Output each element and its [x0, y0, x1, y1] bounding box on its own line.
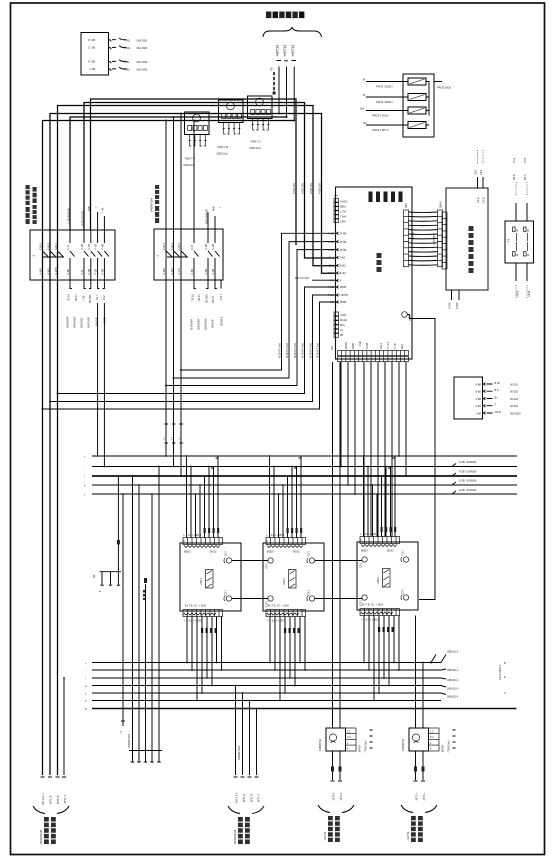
svg-text:M: M	[527, 253, 529, 257]
aux board U2	[446, 188, 488, 290]
feeder wire L1	[278, 67, 280, 114]
svg-text:F-2B: F-2B	[80, 244, 84, 250]
svg-text:−WT13 1.1: −WT13 1.1	[41, 793, 45, 806]
svg-text:3PPB: 3PPB	[340, 285, 347, 289]
svg-text:4B: 4B	[92, 575, 96, 578]
svg-text:C8-1: C8-1	[479, 169, 483, 175]
svg-text:7 2B: 7 2B	[81, 295, 85, 301]
feed wires	[236, 686, 257, 776]
svg-text:PRO3 I 000Ω I: PRO3 I 000Ω I	[376, 85, 393, 89]
module wire markers M1	[204, 528, 220, 533]
bus line 5	[70, 117, 287, 230]
drop wire b	[174, 242, 336, 378]
svg-text:I− 7·Δ B·I + 2B·B: I− 7·Δ B·I + 2B·B	[361, 619, 380, 622]
svg-text:≡WT13: ≡WT13	[291, 45, 295, 57]
ribbon right connector col	[438, 201, 443, 267]
drop wire f	[43, 302, 336, 409]
svg-text:–1: –1	[32, 254, 36, 258]
svg-text:00B.0Ω.4: 00B.0Ω.4	[447, 678, 458, 682]
svg-text:7-1B 0000AB: 7-1B 0000AB	[66, 208, 70, 224]
svg-text:B1: B1	[495, 395, 499, 399]
svg-text:I00AB.4: I00AB.4	[220, 316, 224, 326]
lower bus line 3	[92, 677, 441, 679]
svg-text:Z-W0: Z-W0	[455, 302, 459, 309]
svg-text:0000.2mL: 0000.2mL	[250, 146, 262, 150]
svg-text:M: M	[516, 229, 518, 233]
mid bus line 5	[92, 493, 517, 495]
svg-text:WT1 B: WT1 B	[250, 794, 254, 802]
pin row 7 net label	[312, 279, 336, 281]
KM2 switch links	[166, 251, 188, 257]
svg-text:1.7M: 1.7M	[340, 210, 346, 214]
svg-text:WT1 4: WT1 4	[63, 795, 67, 803]
feeder wire L2	[286, 67, 288, 118]
svg-text:IZA: IZA	[334, 194, 338, 198]
svg-text:≡WT13: ≡WT13	[283, 45, 287, 57]
psu A bottom text	[328, 816, 340, 842]
svg-text:M4-I: M4-I	[328, 271, 333, 275]
chain wire bottom M1-M2	[232, 598, 269, 600]
svg-text:0000.2mL: 0000.2mL	[217, 152, 229, 156]
KM1 left title	[26, 185, 37, 224]
KM2 aux col feed wire	[193, 121, 195, 230]
svg-text:F-2I: F-2I	[80, 270, 84, 275]
resistor bank box	[403, 74, 434, 137]
svg-text:B-4Ω: B-4Ω	[340, 264, 346, 268]
svg-text:F-W1: F-W1	[47, 268, 51, 275]
board drop wires to bus / module3	[341, 362, 406, 537]
KM1 upper stubs	[98, 212, 105, 230]
KM2 upper stubs	[208, 212, 215, 229]
svg-text:1.2: 1.2	[347, 730, 351, 734]
svg-text:F2-E: F2-E	[482, 197, 486, 203]
svg-text:上7: 上7	[178, 436, 182, 441]
svg-text:M4-7: M4-7	[328, 256, 334, 260]
board bottom-left connector J2	[330, 312, 347, 350]
svg-text:00 002: 00 002	[510, 404, 518, 408]
svg-text:I-3PPB: I-3PPB	[340, 293, 348, 297]
svg-text:C-2B: C-2B	[88, 60, 95, 64]
svg-text:F-1B: F-1B	[87, 244, 91, 250]
svg-text:AH-B1: AH-B1	[340, 200, 348, 204]
svg-text:F-4B: F-4B	[211, 269, 215, 275]
bottom text block	[44, 817, 56, 844]
svg-text:M: M	[363, 78, 365, 82]
svg-text:3B4: 3B4	[404, 203, 408, 208]
svg-text:7B 02: 7B 02	[66, 294, 70, 301]
contactor box KM1	[30, 230, 115, 280]
svg-text:00B.0Ω.4: 00B.0Ω.4	[447, 668, 458, 672]
svg-text:F-1B: F-1B	[94, 269, 98, 275]
module wire markers M3 bottom	[378, 627, 394, 632]
svg-text:PRO3 0 0PT 0: PRO3 0 0PT 0	[372, 128, 389, 132]
mid bus line 2	[92, 466, 517, 468]
module M2	[263, 538, 324, 617]
bus line 1	[91, 99, 297, 245]
svg-text:4-M3 10V: 4-M3 10V	[309, 182, 313, 194]
module wire markers M1 bottom	[201, 628, 217, 633]
svg-text:F-WTI: F-WTI	[54, 267, 58, 274]
dot on bus1 for chain	[430, 662, 432, 664]
aux board name	[469, 226, 474, 273]
ribbon edge labels	[411, 232, 437, 245]
svg-text:7-1B: 7-1B	[328, 240, 334, 244]
comb2 feed wires	[133, 467, 160, 751]
svg-text:M: M	[516, 253, 518, 257]
mid bus line 1	[92, 455, 517, 457]
relay contact row 1	[88, 38, 148, 42]
board name label	[377, 253, 382, 272]
KM2 bottom exits	[190, 280, 223, 303]
svg-text:6-B6: 6-B6	[476, 382, 482, 386]
cable fork	[33, 806, 69, 814]
svg-text:00 002: 00 002	[510, 397, 518, 401]
svg-text:06A.0301: 06A.0301	[137, 38, 149, 42]
svg-text:F-B2: F-B2	[124, 68, 130, 72]
svg-text:30STB40: 30STB40	[432, 234, 436, 245]
M3 top wire dots	[363, 455, 396, 486]
M2 bottom wires	[270, 617, 305, 701]
svg-text:I− 7·Δ B·I + 2B·B: I− 7·Δ B·I + 2B·B	[266, 534, 285, 537]
KM2 left title	[155, 185, 159, 223]
wire end ticks	[234, 776, 259, 778]
feeder wire L3	[293, 67, 295, 121]
dashed pe line	[269, 67, 275, 94]
bus line 3	[58, 106, 336, 776]
title text block	[266, 12, 304, 19]
psu A feed wires	[332, 362, 334, 728]
drop wire a	[181, 233, 336, 370]
svg-text:B-4Ω: B-4Ω	[340, 271, 346, 275]
svg-text:7-M4: 7-M4	[340, 215, 346, 219]
svg-text:6-B2: 6-B2	[476, 397, 482, 401]
pin box U3	[454, 377, 483, 419]
module wire markers M3	[381, 527, 397, 532]
board top-left connector J1	[334, 194, 348, 224]
svg-text:−BT1 1: −BT1 1	[339, 792, 343, 801]
svg-text:M 30 KY 2ml: M 30 KY 2ml	[285, 343, 289, 358]
svg-text:A: A	[340, 279, 342, 283]
svg-text:3.4: 3.4	[430, 735, 434, 739]
svg-text:M: M	[527, 229, 529, 233]
svg-text:−BT4 1: −BT4 1	[332, 792, 336, 801]
box T4	[505, 221, 534, 263]
svg-text:0-12: 0-12	[523, 157, 527, 163]
svg-text:0M30KY2l: 0M30KY2l	[318, 739, 322, 751]
bus line 6	[43, 121, 295, 776]
ribbon cable wires	[409, 212, 438, 265]
svg-text:E-2B 100WΩ4: E-2B 100WΩ4	[459, 460, 477, 464]
svg-text:I-4B: I-4B	[89, 67, 95, 71]
lower bus line 4	[92, 685, 441, 687]
svg-text:F2-E: F2-E	[476, 197, 480, 203]
M1 top wires	[187, 456, 219, 538]
svg-text:0M30KY2l: 0M30KY2l	[401, 739, 405, 751]
svg-text:F-2B: F-2B	[211, 244, 215, 250]
svg-text:0M30KY2ml: 0M30KY2ml	[150, 197, 154, 212]
svg-text:M 30 KY 2ml: M 30 KY 2ml	[309, 343, 313, 358]
svg-text:FL2: FL2	[102, 295, 106, 300]
lower bus line 7	[92, 708, 517, 710]
svg-text:06A.0301: 06A.0301	[137, 60, 149, 64]
svg-text:−T009.2ml: −T009.2ml	[364, 740, 368, 753]
svg-text:0-12: 0-12	[512, 157, 516, 163]
board right connector col (ribbon left)	[404, 203, 409, 267]
resistor R4	[408, 122, 426, 129]
svg-text:F-W0: F-W0	[39, 268, 43, 275]
svg-text:M0+: M0+	[340, 323, 346, 327]
psu B box	[409, 728, 439, 751]
T4 bottom wires	[516, 263, 532, 299]
svg-text:00B.0Ω.4: 00B.0Ω.4	[447, 695, 458, 699]
svg-text:F-4Ω: F-4Ω	[124, 38, 130, 42]
svg-text:TR-B: TR-B	[495, 410, 501, 414]
svg-text:PRO3 00Ωk: PRO3 00Ωk	[437, 86, 452, 90]
comb1 feed wire	[117, 476, 119, 572]
svg-text:I− 7·Δ B·I + 2B·B: I− 7·Δ B·I + 2B·B	[267, 620, 286, 623]
svg-text:IC8 2: IC8 2	[408, 314, 412, 321]
svg-text:00 002: 00 002	[510, 390, 518, 394]
chain wire top M1-M2	[232, 560, 269, 562]
drop wire e	[50, 295, 336, 402]
svg-text:F-2B 100WΩ4: F-2B 100WΩ4	[459, 470, 477, 474]
svg-text:7-4: 7-4	[330, 279, 334, 283]
lower bus line 5	[92, 692, 441, 694]
svg-text:WT1 W: WT1 W	[56, 795, 60, 804]
svg-text:w.: w.	[99, 590, 102, 593]
svg-text:≡WT13: ≡WT13	[276, 45, 280, 57]
mid bus line 4	[92, 484, 517, 486]
svg-text:0M30KY2ml: 0M30KY2ml	[237, 745, 241, 760]
svg-text:–T4: –T4	[507, 238, 511, 244]
svg-text:7-1A: 7-1A	[328, 293, 334, 297]
svg-text:WT1 B: WT1 B	[242, 794, 246, 802]
module M1	[180, 538, 241, 617]
C22 wire to module chain	[407, 315, 435, 600]
svg-text:WT1 W: WT1 W	[49, 795, 53, 804]
svg-text:3B4-0: 3B4-0	[439, 201, 443, 208]
psu B fork	[401, 805, 437, 813]
M1 bottom wires	[187, 617, 222, 701]
svg-text:上7: 上7	[163, 436, 167, 441]
relay contact row 4	[89, 67, 148, 71]
svg-text:E-2B 100WΩ4: E-2B 100WΩ4	[459, 479, 477, 483]
T4 top wires	[512, 157, 527, 221]
C22 circle	[402, 312, 408, 318]
svg-text:E: E	[85, 707, 87, 711]
psu B right labels	[441, 730, 456, 753]
svg-text:M 30 KY 2ml: M 30 KY 2ml	[278, 343, 282, 358]
svg-text:−BT1 +: −BT1 +	[422, 792, 426, 801]
svg-text:I0000AB4: I0000AB4	[197, 318, 201, 330]
svg-text:7-1B: 7-1B	[328, 285, 334, 289]
svg-text:F-B I: F-B I	[219, 294, 223, 300]
svg-text:B2-B: B2-B	[512, 174, 516, 180]
svg-text:I-B2: I-B2	[476, 411, 481, 415]
resistor R3	[408, 107, 426, 114]
svg-text:2B: 2B	[340, 333, 343, 337]
svg-text:3T B6: 3T B6	[340, 248, 347, 252]
svg-text:3T B6: 3T B6	[340, 240, 347, 244]
svg-text:AWB: AWB	[351, 343, 355, 349]
mid bus left tags	[84, 456, 86, 497]
svg-text:F-4Ω: F-4Ω	[124, 46, 130, 50]
svg-text:I-B12: I-B12	[516, 290, 520, 297]
svg-text:B6D+: B6D+	[340, 205, 347, 209]
svg-text:T00B: T00B	[365, 343, 369, 349]
board top dip bars	[369, 192, 403, 203]
svg-text:4-M3 10V: 4-M3 10V	[301, 182, 305, 194]
svg-text:W0RT: W0RT	[344, 341, 348, 349]
svg-text:3.4: 3.4	[347, 735, 351, 739]
psu B output wires	[416, 751, 424, 780]
svg-text:30STB: 30STB	[411, 232, 415, 240]
svg-text:06A.0301: 06A.0301	[137, 46, 149, 50]
resistor R2	[408, 94, 426, 101]
bottom text block	[238, 817, 250, 844]
svg-text:06A.0301: 06A.0301	[137, 68, 149, 72]
svg-text:A1C2+M3C2−: A1C2+M3C2−	[498, 663, 502, 680]
svg-text:WT1 4: WT1 4	[257, 794, 261, 802]
svg-text:B2-Y: B2-Y	[523, 174, 527, 180]
lower bus left tags	[85, 662, 87, 711]
cable fork	[228, 806, 264, 814]
KM2 aux columns	[190, 229, 220, 280]
KM2 through-wire tag labels	[163, 424, 183, 443]
KM1 switch links	[43, 251, 65, 257]
svg-text:F-4B: F-4B	[100, 269, 104, 275]
svg-text:2B 07: 2B 07	[74, 294, 78, 301]
svg-text:3T B6: 3T B6	[340, 232, 347, 236]
svg-text:4Ω: 4Ω	[363, 121, 366, 125]
lower bus right labels	[441, 650, 506, 699]
svg-text:F-B0: F-B0	[66, 268, 70, 274]
board left pin rows	[328, 232, 348, 305]
brace under title	[263, 27, 322, 37]
lower bus line 1	[92, 662, 441, 664]
svg-text:B4-I: B4-I	[329, 264, 334, 268]
bus line 2	[84, 103, 336, 259]
svg-text:W0RT: W0RT	[441, 744, 445, 752]
svg-text:2B 08A: 2B 08A	[204, 294, 208, 303]
svg-text:F-B1: F-B1	[124, 60, 130, 64]
svg-text:F-4B: F-4B	[204, 269, 208, 275]
svg-text:−Y: −Y	[119, 730, 123, 734]
svg-text:PE: PE	[269, 67, 273, 71]
svg-text:IZ4: IZ4	[330, 346, 334, 350]
svg-text:~021 W: ~021 W	[406, 831, 410, 841]
svg-text:E: E	[504, 675, 506, 679]
svg-text:4-M3 10V: 4-M3 10V	[318, 182, 322, 194]
bus line 4	[50, 114, 336, 776]
svg-text:00B.0Ω.4: 00B.0Ω.4	[447, 650, 458, 654]
svg-text:B: B	[504, 661, 506, 665]
svg-text:I000AB: I000AB	[211, 319, 215, 328]
drop wire d	[58, 287, 336, 394]
svg-text:上7: 上7	[170, 436, 174, 441]
svg-text:6-B1: 6-B1	[476, 404, 482, 408]
svg-text:F-W.3: F-W.3	[47, 243, 51, 250]
feeder phase marks	[277, 60, 297, 62]
svg-text:P-2B: P-2B	[88, 38, 95, 42]
svg-text:-T009 7-C: -T009 7-C	[250, 140, 262, 144]
svg-text:–1: –1	[156, 254, 160, 258]
extra wire	[63, 678, 65, 775]
board drop dots	[340, 455, 407, 495]
svg-text:7-43: 7-43	[101, 207, 105, 213]
M1 top wire dots	[186, 455, 219, 495]
chain wire bottom M2-M3	[315, 598, 363, 600]
module M3	[357, 537, 418, 616]
svg-text:M 30 KY 2ml: M 30 KY 2ml	[293, 343, 297, 358]
svg-text:MZ10/Z21W: MZ10/Z21W	[233, 829, 237, 844]
aux board left connector col	[442, 212, 447, 269]
relay box K1	[81, 33, 109, 76]
comb2 short feed with tag	[145, 584, 147, 751]
km1 lower wires to bus	[97, 303, 99, 456]
svg-text:M20: M20	[400, 343, 404, 349]
svg-text:2B 0T: 2B 0T	[211, 296, 215, 303]
svg-text:B 62: B 62	[495, 381, 501, 385]
svg-text:F-3B: F-3B	[87, 269, 91, 275]
svg-text:0M30KY2ml: 0M30KY2ml	[127, 733, 131, 748]
T4 inner marks	[513, 227, 530, 257]
svg-text:I− 7·Δ B·I + 2B·B: I− 7·Δ B·I + 2B·B	[184, 620, 203, 623]
psu A box	[326, 728, 356, 751]
svg-text:M: M	[363, 93, 365, 97]
psu A output wires	[333, 751, 341, 780]
comb2 bar and teeth	[129, 751, 162, 763]
svg-text:J7M1: J7M1	[340, 313, 347, 317]
svg-text:F-B: F-B	[190, 245, 194, 249]
svg-text:F-B: F-B	[66, 245, 70, 249]
aux top wires	[474, 150, 486, 203]
wire end ticks	[41, 776, 67, 778]
svg-text:0M: 0M	[360, 107, 364, 111]
main board U1	[336, 187, 413, 359]
svg-text:I000.0AB: I000.0AB	[87, 317, 91, 328]
module wire markers M2 bottom	[284, 628, 300, 633]
svg-text:I− 7·Δ B·I + 2B·B: I− 7·Δ B·I + 2B·B	[360, 533, 379, 536]
relay contact row 3	[88, 60, 148, 64]
svg-text:F-2B: F-2B	[204, 244, 208, 250]
M3 top wires	[364, 456, 396, 537]
svg-text:F-W.1: F-W.1	[54, 243, 58, 250]
svg-text:7-1B: 7-1B	[328, 232, 334, 236]
psu A right labels	[358, 730, 373, 753]
svg-text:1.2: 1.2	[430, 730, 434, 734]
chain wire top M2-M3	[315, 560, 363, 562]
drop wire c	[166, 250, 336, 386]
svg-text:C-1B: C-1B	[88, 46, 95, 50]
KM1 bottom note blocks	[66, 316, 107, 328]
svg-text:−WT2 1.2: −WT2 1.2	[235, 792, 239, 804]
svg-text:Z-W0: Z-W0	[448, 302, 452, 309]
svg-text:C8-1: C8-1	[474, 169, 478, 175]
relay contact row 2	[88, 46, 148, 50]
svg-text:F-B0: F-B0	[190, 268, 194, 274]
svg-text:W0RT: W0RT	[358, 744, 362, 752]
svg-text:PRO3 I 000Ω I: PRO3 I 000Ω I	[376, 100, 393, 104]
svg-text:3-4Ω: 3-4Ω	[340, 256, 346, 260]
svg-text:MZ10/Z21W: MZ10/Z21W	[39, 829, 43, 844]
M2 top wires	[270, 456, 302, 538]
KM2 through wires from bus	[165, 121, 167, 457]
aux bottom stubs	[448, 290, 460, 309]
svg-text:I0000AB4: I0000AB4	[66, 316, 70, 328]
svg-text:7B 02: 7B 02	[190, 294, 194, 301]
svg-text:M 30 KY 2ml: M 30 KY 2ml	[301, 343, 305, 358]
